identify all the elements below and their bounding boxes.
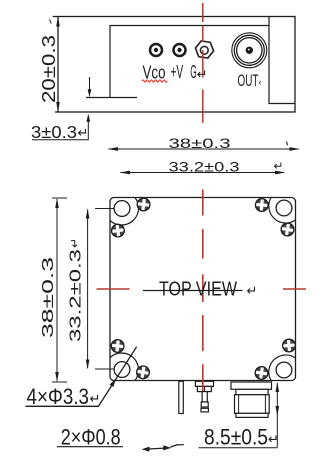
dimension 38±0.3 (top view, left outer) xyxy=(52,198,67,382)
mounting hole TL xyxy=(114,201,130,217)
svg-text:↵: ↵ xyxy=(78,125,89,140)
screw BR-top xyxy=(282,338,296,352)
svg-text:33.2±0.3: 33.2±0.3 xyxy=(68,249,85,342)
svg-text:8.5±0.5: 8.5±0.5 xyxy=(204,425,268,450)
dimension 38±0.3 (front width) xyxy=(108,147,301,151)
corner tab arc TR xyxy=(269,198,296,224)
svg-text:4×Φ3.3: 4×Φ3.3 xyxy=(27,384,90,409)
front view inner panel lines xyxy=(86,17,295,104)
dimension 20±0.3 (front height) xyxy=(56,17,60,113)
svg-text:TOP VIEW: TOP VIEW xyxy=(159,278,238,301)
connector Vco xyxy=(150,44,162,56)
screw BL-left xyxy=(110,339,125,354)
svg-text:↵: ↵ xyxy=(247,283,258,298)
tick mark near 20 dim top xyxy=(50,20,52,24)
screw BR-left xyxy=(254,366,269,381)
connector +V xyxy=(174,44,186,56)
mounting hole BL xyxy=(114,362,130,378)
svg-text:↵: ↵ xyxy=(90,391,101,406)
screw TL-top xyxy=(136,197,151,212)
center terminal stud xyxy=(195,381,213,412)
front view outline xyxy=(53,17,295,113)
svg-text:38±0.3: 38±0.3 xyxy=(40,257,57,338)
horizontal centerline (top view, red) xyxy=(97,288,307,290)
vertical centerline (top view, red) xyxy=(202,190,204,352)
bottom pin (left thin) xyxy=(179,381,184,413)
connector G (hex jack) xyxy=(194,40,215,59)
dimension 3±0.3 (flange) xyxy=(32,77,91,140)
svg-text:33.2±0.3: 33.2±0.3 xyxy=(169,159,240,175)
svg-text:20±0.3: 20±0.3 xyxy=(38,35,59,103)
svg-text:3±0.3: 3±0.3 xyxy=(31,122,77,142)
screw TR-right xyxy=(280,222,295,237)
strikethrough line through TOP VIEW xyxy=(143,290,243,292)
corner tab arc TL xyxy=(110,198,139,226)
svg-text:+V: +V xyxy=(171,62,184,82)
spellcheck squiggle under Vco xyxy=(142,80,167,82)
dimension 33.2±0.3 (top view, inner) xyxy=(86,209,114,370)
output connector side view (bottom right) xyxy=(231,382,272,417)
bowtie leader symbol xyxy=(142,445,184,452)
dimension 8.5±0.5 xyxy=(198,382,279,448)
svg-text:‹: ‹ xyxy=(259,77,262,87)
connector OUT (SMA face) xyxy=(232,33,267,68)
screw BL-right xyxy=(135,365,150,380)
mounting hole BR xyxy=(276,362,292,378)
svg-text:↵: ↵ xyxy=(268,432,279,447)
svg-text:↵: ↵ xyxy=(274,159,284,173)
dimension 33.2±0.3 (front) xyxy=(120,171,286,175)
centerline (front view, red) xyxy=(202,3,204,123)
red centerline tip into stud xyxy=(202,364,204,391)
svg-text:↵: ↵ xyxy=(68,238,82,248)
corner tab arc BR xyxy=(269,355,296,381)
svg-text:38±0.3: 38±0.3 xyxy=(169,135,231,151)
svg-text:Vco: Vco xyxy=(143,62,166,82)
mounting hole TR xyxy=(276,200,292,216)
svg-text:↵: ↵ xyxy=(197,67,208,82)
svg-text:OUT: OUT xyxy=(238,71,259,90)
svg-text:2×Φ0.8: 2×Φ0.8 xyxy=(61,424,121,449)
screw TL-left xyxy=(110,223,125,238)
corner tab arc BL xyxy=(110,353,139,381)
screw TR-top xyxy=(255,198,269,212)
top view square body xyxy=(110,198,296,381)
